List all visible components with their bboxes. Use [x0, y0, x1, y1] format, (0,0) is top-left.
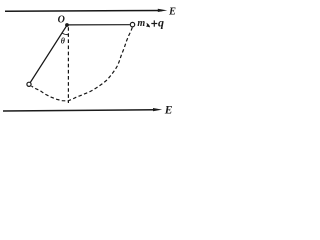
- svg-text:θ: θ: [61, 36, 66, 45]
- svg-text:O: O: [58, 15, 65, 26]
- svg-text:q: q: [158, 16, 164, 30]
- svg-text:E: E: [164, 105, 173, 117]
- svg-text:m: m: [137, 18, 145, 29]
- svg-text:E: E: [168, 7, 176, 18]
